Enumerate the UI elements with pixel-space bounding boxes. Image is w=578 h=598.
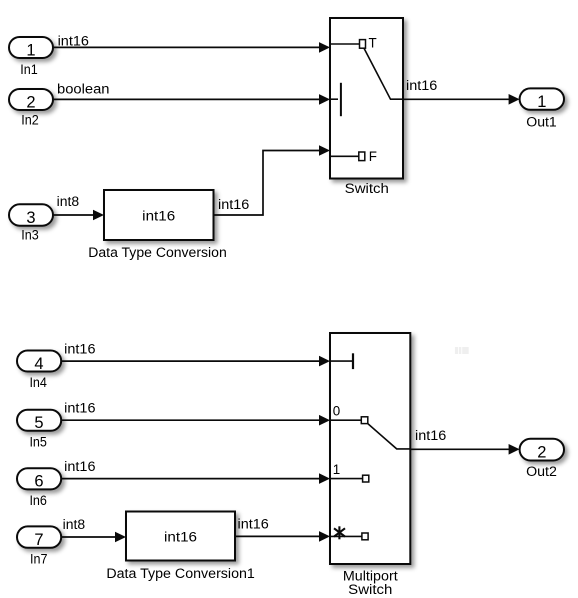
Switch throw diagonal bbox=[364, 48, 403, 99]
svg-text:int16: int16 bbox=[164, 530, 197, 545]
inport In7 bbox=[17, 526, 61, 549]
svg-text:boolean: boolean bbox=[57, 81, 110, 96]
svg-text:Switch: Switch bbox=[348, 582, 392, 597]
wire In3 to Data Type Conversion bbox=[53, 210, 104, 221]
wire In4 to Multiport Switch input 1 bbox=[61, 356, 330, 367]
block Multiport Switch bbox=[330, 333, 410, 564]
svg-text:T: T bbox=[369, 36, 377, 51]
svg-text:Out1: Out1 bbox=[526, 115, 557, 130]
outport Out2 bbox=[520, 439, 564, 462]
wire Switch to Out1 bbox=[403, 94, 520, 105]
wire In7 to Data Type Conversion1 bbox=[61, 532, 126, 543]
svg-text:int16: int16 bbox=[238, 517, 269, 532]
Multiport input 3 square bbox=[363, 475, 369, 482]
svg-text:2: 2 bbox=[26, 93, 35, 111]
block Switch bbox=[330, 18, 403, 179]
inport In6 bbox=[17, 468, 61, 490]
svg-text:In1: In1 bbox=[20, 62, 38, 77]
label Multiport Switch bbox=[343, 568, 398, 597]
svg-text:2: 2 bbox=[537, 443, 546, 461]
svg-text:int16: int16 bbox=[64, 459, 95, 474]
svg-text:int16: int16 bbox=[64, 401, 95, 416]
svg-text:1: 1 bbox=[26, 41, 35, 59]
svg-text:In6: In6 bbox=[29, 493, 47, 508]
svg-text:1: 1 bbox=[537, 93, 546, 111]
svg-text:6: 6 bbox=[34, 473, 43, 491]
Multiport input 4 wire bbox=[331, 535, 362, 537]
svg-text:In5: In5 bbox=[29, 434, 47, 449]
svg-text:int16: int16 bbox=[64, 342, 95, 357]
svg-text:In7: In7 bbox=[30, 551, 48, 566]
svg-text:0: 0 bbox=[333, 404, 340, 419]
wire Multiport Switch to Out2 bbox=[410, 444, 519, 455]
Switch F port wire bbox=[331, 155, 359, 157]
svg-text:Data Type Conversion1: Data Type Conversion1 bbox=[106, 566, 255, 581]
wire Data Type Conversion1 to Multiport Switch input 4 bbox=[235, 531, 330, 542]
Multiport input 1 wire bbox=[331, 360, 353, 362]
svg-text:int8: int8 bbox=[63, 517, 85, 532]
svg-text:1: 1 bbox=[333, 462, 340, 477]
Multiport input 2 square bbox=[361, 417, 368, 424]
watermark artifact bbox=[455, 347, 469, 354]
Switch T port square bbox=[360, 40, 366, 49]
inport In2 bbox=[9, 89, 53, 111]
wire In5 to Multiport Switch input 2 bbox=[61, 415, 330, 426]
Multiport input 1 bar bbox=[352, 353, 354, 369]
block Data Type Conversion bbox=[104, 190, 214, 240]
svg-text:Out2: Out2 bbox=[526, 464, 557, 479]
wire In2 to Switch control input bbox=[53, 94, 330, 105]
Switch F port square bbox=[359, 152, 365, 161]
wire In6 to Multiport Switch input 3 bbox=[61, 473, 330, 484]
Switch T port wire bbox=[331, 43, 360, 45]
inport In4 bbox=[17, 351, 61, 373]
svg-text:int8: int8 bbox=[57, 194, 79, 209]
svg-text:7: 7 bbox=[34, 531, 43, 549]
svg-text:4: 4 bbox=[34, 355, 43, 373]
wire In1 to Switch T input bbox=[53, 42, 330, 53]
svg-text:F: F bbox=[369, 149, 377, 164]
inport In1 bbox=[9, 37, 53, 59]
inport In3 bbox=[9, 204, 53, 227]
wire Data Type Conversion to Switch F input bbox=[214, 145, 331, 215]
svg-text:5: 5 bbox=[34, 414, 43, 432]
Switch control bar bbox=[340, 83, 342, 116]
Multiport input 3 wire bbox=[331, 478, 363, 480]
svg-text:In4: In4 bbox=[29, 375, 47, 390]
svg-text:Data Type Conversion: Data Type Conversion bbox=[88, 245, 227, 260]
outport Out1 bbox=[520, 88, 564, 110]
svg-text:int16: int16 bbox=[406, 78, 437, 93]
svg-text:int16: int16 bbox=[415, 428, 446, 443]
svg-text:Switch: Switch bbox=[345, 181, 389, 196]
block Data Type Conversion1 bbox=[126, 512, 235, 561]
inport In5 bbox=[17, 410, 61, 432]
Multiport port asterisk bbox=[334, 526, 345, 539]
Multiport input 4 square bbox=[362, 533, 368, 540]
Multiport throw diagonal bbox=[368, 424, 410, 449]
Multiport input 2 wire bbox=[331, 419, 362, 421]
svg-text:int16: int16 bbox=[142, 209, 175, 224]
svg-text:3: 3 bbox=[26, 209, 35, 227]
svg-text:In3: In3 bbox=[21, 228, 39, 243]
Switch control port stub bbox=[331, 98, 338, 100]
svg-text:int16: int16 bbox=[58, 33, 89, 48]
svg-text:int16: int16 bbox=[218, 197, 249, 212]
svg-text:In2: In2 bbox=[21, 113, 39, 128]
